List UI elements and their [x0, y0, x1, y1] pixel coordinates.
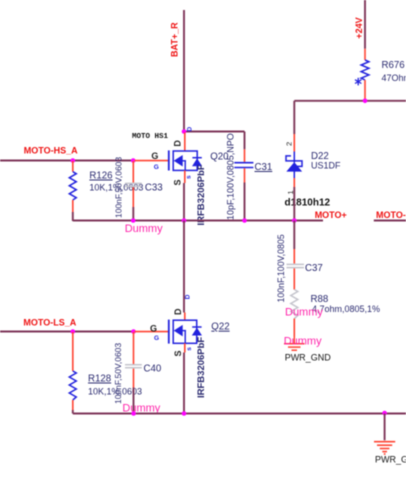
wire PWR_GND bottom rail: [73, 413, 406, 415]
svg-text:IRFB3206PbF: IRFB3206PbF: [196, 164, 207, 225]
label Q20: [210, 152, 229, 163]
node junction R676 bottom: [363, 99, 368, 104]
wire BAT+_R vertical: [183, 10, 185, 132]
svg-text:R676: R676: [382, 60, 405, 71]
pin label d small (Q20) rotated: [187, 127, 194, 132]
resistor R128: [69, 332, 76, 414]
svg-text:S: S: [173, 179, 183, 185]
svg-text:BAT+_R: BAT+_R: [170, 22, 180, 57]
wire +24V vertical: [364, 0, 366, 49]
svg-text:D: D: [173, 308, 183, 315]
net label +24V: [354, 17, 364, 38]
label R88: [311, 294, 329, 305]
svg-text:D: D: [185, 294, 192, 299]
node junction D22 bottom: [292, 218, 297, 223]
label Dummy (C33): [125, 223, 163, 235]
node junction ground drop: [382, 411, 387, 416]
svg-text:Dummy: Dummy: [285, 306, 323, 318]
svg-text:US1DF: US1DF: [311, 160, 341, 170]
label C33: [145, 183, 163, 194]
value label IRFB3206PbF (Q20) vertical: [196, 164, 207, 225]
svg-text:S: S: [173, 350, 183, 356]
label R126: [89, 171, 112, 182]
capacitor C40 (dummy, gray): [125, 332, 142, 414]
svg-text:R126: R126: [89, 171, 112, 182]
label D22: [311, 151, 329, 162]
pin label g small (Q22): [154, 335, 159, 342]
label PWR_GND (bottom right): [375, 455, 406, 465]
pin label S (Q20) rotated: [173, 179, 183, 185]
svg-text:MOTO-LS_A: MOTO-LS_A: [23, 318, 76, 328]
label Dummy (ground): [284, 336, 322, 348]
label C40: [144, 364, 162, 375]
pin label S (Q22) rotated: [173, 350, 183, 356]
svg-text:10pF,100V,0805,NPO: 10pF,100V,0805,NPO: [226, 133, 236, 220]
wire MOTO+ rail: [73, 220, 323, 222]
capacitor C37 (dummy, gray): [287, 221, 305, 290]
ground PWR_GND (bottom right): [374, 442, 395, 454]
label R676: [382, 60, 405, 71]
svg-text:MOTO-HS_A: MOTO-HS_A: [24, 146, 78, 156]
transistor Q22: [135, 313, 202, 353]
pin label G (Q22): [150, 323, 157, 333]
wire ground drop vertical: [384, 414, 386, 441]
wire mid vertical Q20S to Q22D: [183, 221, 185, 313]
net label MOTO-HS_A: [24, 146, 78, 156]
wire MOTO-HS_A horizontal: [0, 160, 134, 162]
svg-text:G: G: [154, 335, 159, 342]
label MOTO HS1: [132, 133, 169, 141]
svg-text:C40: C40: [144, 364, 162, 375]
wire MOTO- stub: [374, 220, 406, 222]
diode D22: [286, 134, 302, 187]
label C31: [255, 162, 273, 173]
wire Q20 source to rail: [183, 183, 185, 221]
value label 10K,1%,0603 (R126): [89, 183, 143, 193]
resistor R676: [361, 49, 369, 99]
resistor R88 (dummy, gray): [291, 290, 298, 337]
svg-text:G: G: [151, 151, 158, 161]
pin label d small (Q22) rotated: [185, 294, 192, 299]
pin number 2 (D22) rotated: [285, 142, 294, 146]
node junction Q22 source bottom: [182, 411, 187, 416]
svg-text:100nF,50V,0603: 100nF,50V,0603: [114, 157, 124, 218]
pin label s small (Q22) rotated: [186, 347, 193, 351]
svg-text:s: s: [186, 175, 193, 179]
value label IRFB3206PbF (Q22) vertical: [196, 337, 207, 398]
pin number 1 (D22) rotated: [286, 190, 295, 194]
value label 10pF,100V,0805,NPO (C31) vertical: [226, 133, 236, 220]
label PWR_GND: [285, 353, 332, 363]
pin label D (Q22) rotated: [173, 308, 183, 315]
node junction C33 top: [131, 158, 136, 163]
ground PWR_GND (under R88): [284, 337, 305, 351]
pin label g small (Q20): [154, 164, 159, 171]
symbol asterisk (R676): [355, 78, 361, 86]
svg-text:Dummy: Dummy: [284, 336, 322, 348]
svg-text:PWR_GND: PWR_GND: [285, 353, 332, 363]
svg-text:47Ohm: 47Ohm: [382, 73, 406, 83]
net label MOTO+: [315, 210, 347, 220]
svg-text:R128: R128: [88, 374, 111, 385]
svg-text:MOTO HS1: MOTO HS1: [132, 133, 169, 141]
svg-text:IRFB3206PbF: IRFB3206PbF: [196, 337, 207, 398]
value label 10K,1%,0603 (R128): [88, 387, 142, 397]
wire D22 top: [293, 101, 295, 134]
wire MOTO-LS_A horizontal: [0, 331, 134, 333]
pin label D (Q20) rotated: [173, 140, 183, 147]
wire Q22 source down: [183, 353, 185, 414]
label C37: [305, 263, 323, 274]
node junction C33 bottom: [131, 218, 136, 223]
svg-text:MOTO-: MOTO-: [376, 210, 406, 220]
label Q22: [211, 322, 229, 333]
node junction R126 top: [71, 158, 76, 163]
wire drain rail to C31: [184, 131, 245, 133]
svg-text:G: G: [150, 323, 157, 333]
svg-text:D: D: [187, 127, 194, 132]
pin label s small (Q20) rotated: [186, 175, 193, 179]
svg-text:MOTO+: MOTO+: [315, 210, 347, 220]
value label 100nF,100V,0805 (C37) vertical: [276, 234, 286, 302]
label d1810h12: [285, 198, 331, 209]
svg-text:d1810h12: d1810h12: [285, 198, 331, 209]
wire +24V rail horizontal: [294, 100, 406, 102]
node junction R128 top: [71, 329, 76, 334]
transistor Q20: [135, 133, 202, 184]
node junction Q20 source: [182, 218, 187, 223]
node junction drain BAT+: [182, 129, 187, 134]
label Dummy (R88): [285, 306, 323, 318]
value label US1DF (D22): [311, 160, 341, 170]
node junction C40 top: [131, 329, 136, 334]
value label 4,7ohm,0805,1% (R88): [312, 304, 380, 314]
net label BAT+_R: [170, 22, 180, 57]
resistor R126: [69, 161, 76, 221]
svg-text:Dummy: Dummy: [125, 223, 163, 235]
label R128: [88, 374, 111, 385]
svg-text:100nF,100V,0805: 100nF,100V,0805: [276, 234, 286, 302]
svg-text:PWR_GND: PWR_GND: [375, 455, 406, 465]
value label 100nF,50V,0603 (C40) vertical: [113, 343, 123, 404]
pin label G (Q20): [151, 151, 158, 161]
svg-text:G: G: [154, 164, 159, 171]
wire D22 bottom: [293, 187, 295, 221]
node junction C31 bottom: [242, 218, 247, 223]
net label MOTO-: [376, 210, 406, 220]
svg-text:100nF,50V,0603: 100nF,50V,0603: [113, 343, 123, 404]
node junction C40 bottom: [131, 411, 136, 416]
capacitor C31: [234, 132, 253, 221]
svg-text:D: D: [173, 140, 183, 147]
net label MOTO-LS_A: [23, 318, 76, 328]
capacitor C33 (dummy, gray): [125, 161, 142, 221]
label Dummy (C40): [122, 403, 160, 415]
value label 47Ohm (R676): [382, 73, 406, 83]
svg-text:Q22: Q22: [211, 322, 229, 333]
svg-text:C33: C33: [145, 183, 163, 194]
svg-text:C37: C37: [305, 263, 323, 274]
value label 100nF,50V,0603 (C33) vertical: [114, 157, 124, 218]
svg-text:2: 2: [285, 142, 294, 146]
svg-text:s: s: [186, 347, 193, 351]
svg-text:C31: C31: [255, 162, 273, 173]
svg-text:+24V: +24V: [354, 17, 364, 38]
